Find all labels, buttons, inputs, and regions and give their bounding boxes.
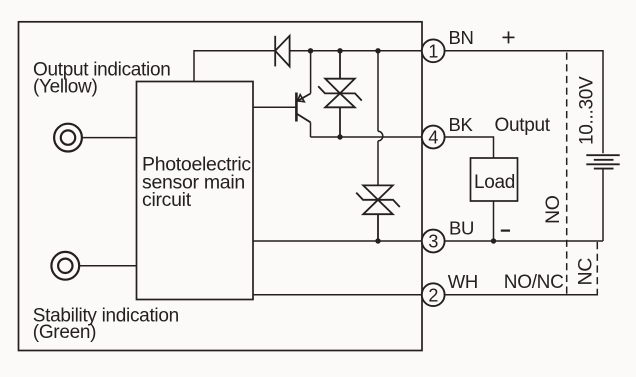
svg-text:(Yellow): (Yellow) — [33, 77, 97, 98]
wire: main circuit top to diode (node A) — [194, 51, 275, 82]
junction dot Z1/BK line — [337, 134, 342, 139]
svg-text:Load: Load — [474, 172, 515, 193]
dashed NO select line — [566, 53, 568, 295]
svg-text:NC: NC — [575, 258, 597, 286]
minus sign (-) — [501, 230, 510, 232]
svg-text:1: 1 — [428, 41, 438, 61]
terminal 2 — [422, 283, 445, 306]
zener Z2 (bidirectional, supply clamp) — [356, 185, 400, 241]
junction dot Z2/BU line — [375, 238, 380, 243]
sensor enclosure — [19, 22, 423, 351]
svg-text:10...30V: 10...30V — [577, 76, 598, 145]
svg-text:WH: WH — [448, 271, 478, 292]
terminal 1 — [422, 39, 445, 62]
wire: yellow LED to main circuit — [82, 137, 137, 139]
svg-text:NO: NO — [542, 195, 564, 224]
svg-text:BU: BU — [449, 218, 474, 239]
junction dots on BN bus — [308, 48, 496, 244]
wire: BK line terminal 4 to load — [445, 137, 494, 158]
svg-text:2: 2 — [428, 285, 438, 305]
indicator LED LY (output indication, yellow) — [54, 124, 82, 152]
svg-text:Output: Output — [495, 115, 551, 136]
plus sign (+) — [503, 31, 515, 43]
svg-text:circuit: circuit — [142, 189, 192, 211]
svg-text:(Green): (Green) — [33, 322, 96, 343]
wire: BU line from terminal 3 to supply rail — [445, 240, 603, 242]
svg-text:3: 3 — [428, 232, 438, 252]
svg-text:BK: BK — [449, 114, 474, 135]
zener Z1 (bidirectional, across output) — [318, 51, 362, 137]
transistor Q1 (PNP output) — [296, 93, 310, 123]
wire: diode to terminal 1 (BN bus) — [290, 50, 422, 52]
svg-text:NO/NC: NO/NC — [504, 272, 564, 293]
svg-text:BN: BN — [449, 27, 474, 48]
wire: Q1 emitter to BN bus — [310, 51, 312, 94]
indicator LED LG (stability indication, green) — [51, 252, 79, 280]
wire: BU line from main circuit to terminal 3 — [253, 240, 422, 242]
junction dot load/BU line — [491, 238, 496, 243]
wire: load bottom to BU line — [493, 201, 495, 241]
terminal 3 — [422, 230, 445, 253]
wire: green LED to main circuit — [79, 265, 137, 267]
wire: base of Q1 from main circuit — [253, 106, 296, 108]
wire: WH line from main circuit to terminal 2 — [253, 294, 422, 296]
main circuit box U1 — [137, 82, 254, 300]
terminal 4 — [422, 126, 445, 149]
wire: Q1 collector down to BK line — [310, 122, 312, 137]
load box — [471, 158, 518, 201]
battery BT1 — [586, 155, 619, 168]
dashed NC select line — [596, 242, 598, 289]
wire: WH line from terminal 2 to NC branch — [445, 289, 598, 295]
wire: BN bus to Z2 with hop over BK line — [377, 51, 379, 132]
svg-text:4: 4 — [428, 128, 438, 148]
diode D1 (reverse polarity protection) — [275, 36, 289, 67]
wire hop over BK line — [378, 131, 383, 141]
emitter arrow of Q1 — [297, 95, 304, 102]
wire: BN supply rail to battery — [445, 51, 603, 154]
wire: battery minus down to BU rail — [602, 169, 604, 241]
wire: BK line from collector to terminal 4 — [311, 136, 423, 138]
